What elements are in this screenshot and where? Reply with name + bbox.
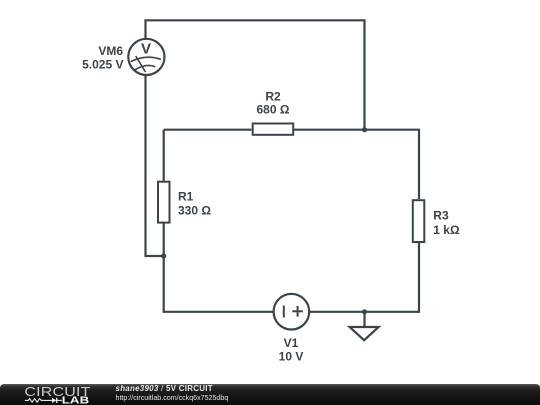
resistor R1 xyxy=(158,182,170,223)
junction node C (left, R1 bottom / VM6) xyxy=(161,253,166,258)
V1 body circle xyxy=(274,294,310,330)
junction node A (top right) xyxy=(362,127,367,132)
svg-text:5.025 V: 5.025 V xyxy=(82,58,123,72)
wire node B down to R1 top xyxy=(163,130,165,181)
resistor R2 xyxy=(253,124,294,135)
svg-text:1 kΩ: 1 kΩ xyxy=(433,223,460,237)
CircuitLab logo xyxy=(22,384,112,405)
voltmeter VM6 xyxy=(128,39,164,75)
footer title xyxy=(116,385,213,392)
wire V1 right through ground node D to R3 bottom xyxy=(310,243,419,312)
svg-text:V: V xyxy=(141,41,151,58)
svg-text:330 Ω: 330 Ω xyxy=(178,204,211,218)
svg-text:R3: R3 xyxy=(433,209,449,223)
ground xyxy=(350,312,379,340)
voltage source V1 xyxy=(274,294,310,330)
svg-text:680 Ω: 680 Ω xyxy=(257,103,290,117)
V1 plus sign xyxy=(292,310,303,312)
resistor R3 xyxy=(413,200,425,242)
junction node D (ground tap) xyxy=(362,309,367,314)
svg-text:V1: V1 xyxy=(284,336,299,350)
svg-text:R2: R2 xyxy=(265,89,281,103)
footer bar xyxy=(0,384,540,405)
wire R1 bottom through node C to bottom-left corner to V1 left xyxy=(164,224,274,312)
V1 minus terminal bar xyxy=(283,306,285,318)
svg-text:R1: R1 xyxy=(178,190,194,204)
svg-text:LAB: LAB xyxy=(62,394,90,405)
VM6 body circle xyxy=(128,39,164,75)
svg-text:VM6: VM6 xyxy=(98,44,123,58)
wire from VM6 top over to node A (top loop) xyxy=(146,20,365,129)
footer url xyxy=(116,395,229,402)
wire VM6 bottom down and right to node C xyxy=(146,75,164,256)
svg-text:10 V: 10 V xyxy=(279,350,304,364)
VM6 meter scale inner arc xyxy=(134,65,155,70)
ground triangle xyxy=(350,327,379,340)
wire R2 right terminal through node A to R3 top xyxy=(294,130,419,199)
wire node B to R2 left terminal xyxy=(164,129,252,131)
ground stem xyxy=(363,312,365,327)
VM6 meter scale outer arc xyxy=(131,57,161,61)
VM6 meter needle xyxy=(136,56,146,72)
